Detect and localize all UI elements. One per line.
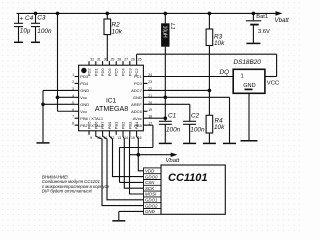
svg-text:PD1: PD1: [93, 68, 98, 77]
ground C3: [31, 41, 40, 43]
svg-text:L1: L1: [169, 23, 175, 29]
svg-text:8: 8: [72, 122, 74, 126]
svg-text:PD0: PD0: [100, 68, 105, 77]
IC1 ATMEGA8 box: [79, 65, 144, 131]
svg-text:MOSI: MOSI: [145, 192, 157, 197]
IC1 right pin stubs: [143, 77, 147, 126]
svg-text:+: +: [20, 16, 24, 23]
svg-text:100n: 100n: [166, 127, 181, 134]
svg-text:23: 23: [148, 80, 152, 84]
ground C2: [183, 142, 196, 144]
ground Bat1: [246, 42, 260, 44]
node Vbatt arrow top: [276, 11, 283, 16]
svg-text:GND: GND: [80, 88, 89, 93]
ground IC left: [37, 142, 50, 144]
svg-text:3: 3: [72, 87, 74, 91]
svg-text:32: 32: [90, 58, 94, 62]
svg-text:IC1: IC1: [106, 97, 117, 104]
svg-text:VDD: VDD: [145, 169, 155, 174]
wire rail to IC Vcc pins: [56, 12, 75, 112]
svg-text:PD7: PD7: [100, 121, 105, 130]
svg-text:26: 26: [131, 58, 135, 62]
svg-text:14: 14: [124, 136, 128, 140]
svg-text:PC5: PC5: [114, 68, 119, 77]
svg-text:Vcc: Vcc: [80, 95, 87, 100]
svg-text:15: 15: [131, 136, 135, 140]
svg-text:2: 2: [72, 80, 74, 84]
ground R4: [203, 142, 216, 144]
resistor R2: [104, 12, 111, 62]
svg-text:13: 13: [117, 136, 121, 140]
capacitor C2: [183, 121, 196, 142]
svg-text:ADC6: ADC6: [131, 109, 142, 114]
svg-text:PC2: PC2: [134, 68, 139, 77]
resistor R4: [206, 115, 213, 142]
IC1 top pin stubs: [89, 61, 137, 65]
svg-text:27: 27: [124, 58, 128, 62]
svg-text:DS18B20: DS18B20: [234, 59, 262, 66]
svg-text:3.6V: 3.6V: [258, 29, 270, 35]
node Vbatt arrow bottom: [171, 153, 178, 158]
pin numbers top 32-25: [90, 58, 141, 62]
svg-text:GDO1: GDO1: [145, 198, 158, 203]
wire ADC7 to divider node: [147, 89, 209, 91]
svg-text:PC6: PC6: [107, 68, 112, 77]
svg-text:C4: C4: [25, 15, 34, 22]
svg-text:10k: 10k: [112, 28, 123, 35]
svg-text:SCK: SCK: [145, 186, 155, 191]
svg-text:30: 30: [104, 58, 108, 62]
svg-text:PC0: PC0: [134, 81, 143, 86]
svg-text:GND: GND: [133, 95, 142, 100]
svg-text:Vbatt: Vbatt: [166, 158, 180, 164]
svg-text:20: 20: [148, 101, 152, 105]
svg-text:1: 1: [241, 73, 244, 79]
wire IC GND right to ground: [147, 97, 229, 142]
svg-text:PD5: PD5: [87, 121, 92, 130]
svg-text:100n: 100n: [37, 28, 52, 35]
svg-text:10k: 10k: [214, 40, 225, 47]
resistor R3: [206, 12, 213, 116]
capacitor C3: [31, 12, 40, 42]
svg-text:PB4: PB4: [134, 121, 139, 129]
IC1 bottom pin stubs: [89, 131, 137, 135]
IC1 bottom pin labels: [87, 121, 140, 130]
svg-text:1: 1: [72, 73, 74, 77]
wire PD7 to GDO1: [103, 135, 144, 200]
svg-text:16: 16: [138, 136, 142, 140]
svg-text:25: 25: [138, 58, 142, 62]
svg-text:11: 11: [104, 136, 108, 140]
svg-text:5: 5: [72, 101, 74, 105]
pin numbers bottom 9-16: [90, 136, 141, 140]
ground CC1101: [112, 220, 125, 222]
svg-text:24: 24: [148, 73, 152, 77]
svg-text:Bat1: Bat1: [256, 14, 268, 20]
wire DS18B20 GND pin: [248, 93, 250, 140]
svg-text:DIP будет отличаться!: DIP будет отличаться!: [42, 189, 93, 194]
wire PB5 to CSN: [120, 125, 153, 182]
wire PC1 to DS18B20 DQ: [147, 76, 233, 78]
svg-text:PD2: PD2: [87, 68, 92, 77]
svg-text:21: 21: [148, 94, 152, 98]
wire Vbatt net bottom: [130, 154, 173, 156]
capacitor C1: [159, 96, 172, 143]
wire PC2 pin to DS18B20 VCC: [137, 54, 277, 76]
svg-text:PB3: PB3: [127, 121, 132, 129]
svg-text:PC4: PC4: [121, 68, 126, 77]
svg-text:Vbatt: Vbatt: [275, 17, 290, 24]
wire Vbatt top rail: [17, 12, 277, 14]
wire PB4 to VDD: [137, 135, 144, 171]
capacitor C4: [14, 13, 23, 41]
svg-text:GDO2: GDO2: [145, 203, 158, 208]
svg-text:10µ: 10µ: [20, 28, 31, 35]
svg-text:VCC: VCC: [267, 80, 280, 86]
svg-text:29: 29: [111, 58, 115, 62]
node pin1 marker: [81, 68, 86, 73]
svg-text:AVcc: AVcc: [133, 116, 142, 121]
svg-text:CSN: CSN: [145, 180, 155, 185]
pin numbers right 24-17: [148, 73, 152, 126]
IC1 left pin stubs: [75, 77, 79, 126]
svg-text:GDO0: GDO0: [145, 174, 158, 179]
svg-text:C1: C1: [168, 112, 177, 119]
wire AVcc to L1: [147, 117, 165, 119]
IC1 right pin labels: [131, 74, 142, 128]
IC1 top pin labels: [87, 68, 140, 77]
svg-text:AREF: AREF: [131, 102, 142, 107]
svg-text:9: 9: [90, 136, 92, 140]
pin numbers left 1-8: [72, 73, 74, 126]
svg-text:GND: GND: [243, 83, 255, 89]
ground right rail: [223, 142, 236, 144]
ground DS18B20 internal: [245, 88, 253, 90]
wire PD6 to GDO2: [96, 135, 144, 206]
svg-text:DQ: DQ: [220, 69, 230, 76]
svg-text:PB0: PB0: [107, 121, 112, 129]
ground C4: [14, 41, 23, 43]
svg-text:10k: 10k: [214, 124, 225, 131]
svg-text:PD6: PD6: [93, 121, 98, 130]
wire PB0 to GDO0: [109, 135, 143, 177]
svg-text:6: 6: [72, 108, 74, 112]
wire PB2 to SCK: [123, 135, 144, 188]
svg-text:10µH: 10µH: [161, 26, 167, 38]
module CC1101 box: [161, 165, 225, 214]
note warning text: [42, 174, 110, 193]
ground C1: [159, 142, 172, 144]
svg-text:10: 10: [97, 136, 101, 140]
connector CC1101 pin field: [144, 168, 162, 214]
svg-text:R2: R2: [112, 21, 121, 28]
wire PB3 to MOSI: [130, 135, 144, 194]
svg-text:17: 17: [148, 122, 152, 126]
svg-text:PB6 / XTAL1: PB6 / XTAL1: [80, 116, 104, 121]
wire IC GND pins to ground: [41, 90, 74, 142]
svg-text:Vcc: Vcc: [80, 109, 87, 114]
svg-text:22: 22: [148, 87, 152, 91]
ground DS18B20: [241, 140, 258, 142]
sensor DS18B20 box: [233, 69, 265, 93]
svg-text:CC1101: CC1101: [168, 172, 208, 184]
inductor L1: [161, 12, 169, 122]
svg-text:28: 28: [117, 58, 121, 62]
svg-text:PB1: PB1: [114, 121, 119, 129]
connector CC1101 pin labels: [145, 169, 158, 215]
svg-text:19: 19: [148, 108, 152, 112]
svg-text:C2: C2: [191, 112, 200, 119]
svg-text:ATMEGA8: ATMEGA8: [95, 105, 128, 113]
svg-text:PB2: PB2: [121, 121, 126, 129]
IC1 left pin labels: [80, 74, 104, 128]
svg-text:31: 31: [97, 58, 101, 62]
svg-text:100n: 100n: [190, 127, 205, 134]
svg-text:18: 18: [148, 115, 152, 119]
svg-text:C3: C3: [37, 15, 46, 22]
svg-text:4: 4: [72, 94, 74, 98]
svg-text:GND: GND: [145, 209, 156, 214]
svg-text:ADC7: ADC7: [131, 88, 142, 93]
svg-text:GND: GND: [80, 102, 89, 107]
wire CC1101 GND to ground: [119, 211, 144, 220]
svg-text:7: 7: [72, 115, 74, 119]
svg-text:PC3: PC3: [127, 68, 132, 77]
wire AREF to C2: [147, 104, 189, 121]
battery Bat1: [246, 12, 261, 43]
svg-text:PD4: PD4: [80, 81, 89, 86]
svg-text:12: 12: [111, 136, 115, 140]
